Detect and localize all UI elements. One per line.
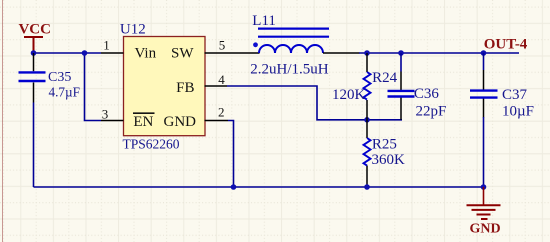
node junction EN branch tap <box>82 50 88 56</box>
node junction R25 bottom <box>364 184 370 190</box>
node junction R24 top <box>364 50 370 56</box>
pin 1 (Vin) <box>101 52 124 54</box>
pin 3 (EN) <box>101 120 124 122</box>
wire C35 bottom to ground rail <box>33 103 35 188</box>
svg-text:4.7µF: 4.7µF <box>49 84 80 99</box>
node junction GND drop <box>231 184 237 190</box>
C36 top wire stub <box>400 53 402 72</box>
svg-text:EN: EN <box>133 114 153 130</box>
winding <box>259 45 323 53</box>
pin 4 (FB) <box>205 85 228 87</box>
node junction C37 top <box>481 50 487 56</box>
svg-text:1: 1 <box>103 38 110 53</box>
node junction C37 bottom <box>481 184 487 190</box>
capacitor C36 <box>388 53 447 120</box>
svg-text:C37: C37 <box>502 87 528 103</box>
svg-text:U12: U12 <box>120 22 146 38</box>
wire inductor right pin <box>323 52 360 54</box>
svg-text:360K: 360K <box>372 152 406 168</box>
svg-text:120K: 120K <box>332 87 366 103</box>
svg-text:C35: C35 <box>48 70 71 85</box>
svg-text:Vin: Vin <box>135 46 157 62</box>
C35 pins <box>33 53 35 103</box>
C36 plates <box>388 91 415 97</box>
svg-text:10µF: 10µF <box>502 104 534 120</box>
svg-text:VCC: VCC <box>18 22 51 38</box>
svg-text:R25: R25 <box>372 137 397 153</box>
wire ground rail <box>34 186 484 188</box>
ground symbol GND <box>467 187 501 237</box>
R24 zigzag <box>364 72 371 100</box>
node junction C36 top <box>398 50 404 56</box>
node junction FB / R24 / R25 <box>364 117 370 123</box>
R24 pins <box>366 53 368 120</box>
R25 pins <box>366 120 368 187</box>
C37 pins <box>483 70 485 118</box>
svg-text:22pF: 22pF <box>416 104 447 120</box>
C36 pins <box>400 72 402 120</box>
svg-text:2.2uH/1.5uH: 2.2uH/1.5uH <box>250 61 328 77</box>
C37 top wire stub <box>483 53 485 70</box>
svg-text:C36: C36 <box>414 86 440 102</box>
pin 5 (SW) <box>205 52 260 54</box>
C37 plates <box>470 91 498 98</box>
svg-text:5: 5 <box>219 38 226 53</box>
wire SW output rail <box>359 52 519 54</box>
resistor R24 <box>332 53 398 120</box>
wire C37 bottom to ground rail <box>483 117 485 187</box>
svg-text:4: 4 <box>218 72 225 87</box>
svg-text:SW: SW <box>171 46 194 62</box>
R25 zigzag <box>364 138 371 166</box>
EN active-low overline <box>133 112 155 114</box>
node junction VCC / C35 <box>31 50 37 56</box>
svg-text:GND: GND <box>469 222 500 237</box>
wire VCC rail to pin 1 <box>34 52 102 54</box>
svg-text:OUT-4: OUT-4 <box>484 36 528 52</box>
wire IC GND pin 2 drop <box>228 121 234 188</box>
inductor L11 <box>250 13 329 78</box>
capacitor C37 <box>470 53 534 120</box>
polarity dot <box>253 42 258 47</box>
capacitor C35 <box>19 53 80 103</box>
sheet border line <box>2 0 4 242</box>
IC U12 TPS62260 body <box>120 22 205 152</box>
power symbol VCC <box>18 22 51 52</box>
svg-text:TPS62260: TPS62260 <box>123 137 180 152</box>
wire FB feedback path <box>227 86 402 120</box>
resistor R25 <box>364 120 406 187</box>
svg-text:R24: R24 <box>372 70 398 86</box>
pin 2 (GND) <box>205 120 229 122</box>
svg-text:L11: L11 <box>252 13 276 29</box>
svg-text:FB: FB <box>176 80 194 96</box>
wire EN branch (down and right to pin 3) <box>85 53 102 121</box>
svg-text:2: 2 <box>218 105 225 120</box>
svg-text:GND: GND <box>164 114 197 130</box>
C35 plates <box>19 72 46 81</box>
core bars <box>258 29 329 37</box>
svg-text:3: 3 <box>102 107 109 122</box>
